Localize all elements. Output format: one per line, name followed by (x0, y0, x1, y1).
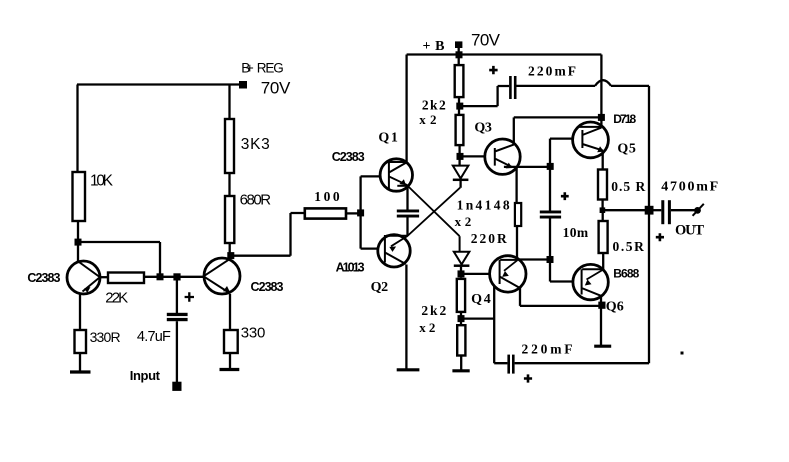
wire 2k2 to ground (460, 356, 462, 370)
wire 330R to ground (79, 353, 81, 371)
svg-text:680R: 680R (240, 192, 272, 209)
wire Q-right emitter to 330 (229, 294, 231, 330)
resistor 220R (515, 203, 521, 226)
wire Q-left emitter to 330R (79, 294, 81, 331)
wire Q3 collector to Q5 node (514, 116, 602, 118)
node dot lower 10m junction (547, 256, 554, 263)
svg-text:C2383: C2383 (27, 271, 60, 285)
transistor Q-right C2383 (204, 258, 240, 294)
svg-text:100: 100 (314, 189, 340, 204)
ground under 330R (70, 370, 91, 373)
wire base rail vertical Q1-Q2 (361, 176, 381, 248)
ground under 330 (220, 368, 240, 371)
transistor Q4 (490, 256, 526, 292)
wire 22K to Q-right base (144, 276, 204, 278)
capacitor between Q1 and Q2 (406, 186, 408, 236)
resistor 330 (224, 330, 238, 353)
plus sign top 220mF (489, 66, 497, 74)
capacitor 10m (540, 211, 561, 214)
resistor 2k2 lower-a (457, 279, 465, 312)
svg-text:220mF: 220mF (528, 64, 576, 79)
node junction above left transistor (75, 239, 82, 246)
node OUT big square (645, 206, 654, 215)
node dot on Q6 emitter wire (598, 302, 605, 309)
svg-text:x2: x2 (455, 214, 472, 229)
wire diag corner to diode2 (459, 236, 461, 252)
wire 220mF top left leg (460, 86, 509, 106)
svg-text:220mF: 220mF (522, 342, 573, 357)
node dot Q3 emitter junction (547, 163, 554, 170)
svg-text:10K: 10K (90, 173, 114, 190)
transistor Q3 (485, 139, 520, 174)
wire rail to 3K3 (228, 85, 230, 120)
wire between lower 2k2 pair (460, 312, 462, 325)
capacitor 4700mF (661, 200, 664, 224)
node dot x160 on base wire (157, 273, 164, 280)
node dot x177 on base wire (173, 273, 180, 280)
svg-text:10m: 10m (563, 225, 589, 240)
svg-text:x2: x2 (419, 112, 436, 127)
wire collector loop to 100 resistor (231, 213, 305, 256)
svg-text:Q2: Q2 (371, 280, 389, 295)
svg-text:A1013: A1013 (336, 261, 365, 275)
wire Q4 emitter to Q6 emitter (520, 288, 602, 306)
svg-text:B+: B+ (241, 61, 254, 76)
output probe terminal (693, 204, 704, 216)
wire OUT node to lower 0.5R (602, 210, 604, 221)
wire 0.5R lower to Q6 collector (602, 253, 604, 269)
wire 100 to base rail (346, 212, 361, 214)
svg-text:1n4148: 1n4148 (457, 198, 510, 213)
wire 3K3 to 680R (228, 173, 230, 196)
node dot small at 0.5R junction (600, 207, 606, 213)
svg-text:4.7uF: 4.7uF (137, 329, 171, 345)
resistor 10K (73, 172, 86, 221)
wire 220R to Q4 collector (517, 226, 550, 260)
svg-text:Q5: Q5 (617, 141, 636, 156)
svg-text:4700mF: 4700mF (661, 180, 718, 195)
wire input node down to capacitor 4.7uF (176, 277, 178, 313)
wire feedback horizontal y242 (78, 241, 160, 243)
node dot at base rail (357, 209, 364, 216)
node dot on +B rail (456, 51, 463, 58)
wire Q6 emitter to ground (600, 296, 602, 346)
svg-text:+B: +B (423, 39, 445, 54)
transistor Q2 A1013 (378, 235, 410, 267)
node dot Q4 base junction (458, 270, 465, 277)
wire Q1 collector vertical (405, 55, 407, 162)
capacitor C-4.7uF plates (167, 313, 188, 316)
svg-text:220R: 220R (471, 231, 507, 246)
wire between 2k2 pair (458, 97, 460, 115)
ground under Q2 (397, 368, 420, 371)
node B+ REG terminal square (239, 81, 247, 89)
wire 4.7uF to input terminal (176, 321, 178, 382)
svg-text:C2383: C2383 (251, 280, 284, 294)
svg-text:70V: 70V (261, 79, 291, 98)
wire 220mF top right leg with hop (517, 80, 650, 86)
wire node to Q4 emitter loop and bottom cap (461, 286, 507, 364)
resistor 2k2 upper-b (456, 115, 464, 145)
transistor Q1 C2383 (380, 159, 412, 191)
wire Q2 collector to ground (405, 265, 407, 369)
wire 2k2 to diode1 (458, 145, 460, 166)
svg-text:Q6: Q6 (606, 299, 624, 314)
wire 0.5R to OUT node (601, 200, 603, 211)
wire Q3 collector vertical (513, 117, 515, 144)
capacitor 220mF bottom (507, 355, 510, 374)
resistor 680R (225, 196, 234, 243)
stray dot (681, 352, 684, 355)
wire 4700mF to output probe (671, 209, 695, 211)
ground under Q6 (594, 345, 611, 348)
plus sign 10m (561, 192, 569, 200)
svg-text:330: 330 (241, 325, 266, 342)
svg-text:330R: 330R (90, 329, 121, 345)
svg-text:3K3: 3K3 (241, 136, 270, 153)
diode D1 1n4148 (453, 166, 469, 188)
transistor Q6 B688 (573, 264, 608, 299)
svg-text:D718: D718 (613, 112, 636, 126)
svg-text:C2383: C2383 (332, 150, 365, 164)
transistor Q-left C2383 (67, 261, 100, 294)
svg-text:0.5 R: 0.5 R (611, 179, 645, 194)
diode D2 1n4148 (454, 252, 470, 271)
node dot between lower 2k2 pair (458, 315, 465, 322)
node +B terminal square (455, 41, 462, 48)
wire 10K bottom to Q-left collector (77, 221, 79, 262)
wire diagonal Q1 emitter to lower diode (389, 177, 460, 237)
ground under lower 2k2 (452, 369, 469, 372)
wire junction down to 10m cap (549, 167, 551, 211)
transistor Q5 D718 (573, 122, 609, 158)
resistor 2k2 upper-a (455, 65, 464, 97)
wire Q3 base (460, 155, 485, 157)
svg-text:REG: REG (257, 61, 284, 76)
node dot Q5 collector junction (598, 114, 605, 121)
resistor 330R (75, 330, 87, 353)
resistor 0.5R upper (598, 170, 607, 200)
node dot between 2k2 pair (456, 103, 463, 110)
wire Q5 collector vertical from +B rail (600, 55, 602, 128)
wire left vertical from rail to 10K (76, 85, 78, 173)
svg-text:Q1: Q1 (378, 130, 398, 145)
plus sign OUT (656, 233, 664, 241)
wire +B rail horizontal (407, 53, 602, 55)
wire junction down to Q6 base (550, 260, 573, 282)
wire feedback down at x160 (159, 242, 161, 277)
svg-text:Q3: Q3 (474, 120, 492, 135)
node Input terminal square (172, 382, 181, 391)
svg-text:2k2: 2k2 (421, 303, 446, 318)
wire Q5 base (550, 139, 573, 167)
wire +B square stub (458, 48, 460, 65)
wire OUT horizontal (603, 209, 646, 211)
plus sign of 4.7uF (185, 292, 194, 301)
wire emitter to 220R (515, 167, 517, 203)
svg-text:0.5R: 0.5R (613, 239, 645, 254)
wire Q5 emitter to 0.5R (602, 151, 604, 170)
wire Q3 emitter horizontal (504, 166, 550, 168)
resistor 0.5R lower (599, 221, 608, 253)
wire OUT node to 4700mF (654, 209, 662, 211)
resistor 3K3 (225, 119, 234, 173)
wire diode2 to 2k2 lower-a (460, 277, 462, 279)
svg-text:70V: 70V (471, 31, 501, 50)
svg-text:OUT: OUT (675, 223, 704, 239)
wire right rail vertical (648, 86, 650, 363)
capacitor 220mF top (509, 76, 512, 99)
wire 10m cap to lower junction (549, 219, 551, 260)
svg-text:Input: Input (130, 368, 161, 383)
wire diagonal Q2 emitter to upper diode (391, 188, 460, 247)
wire Q4 base (461, 273, 490, 275)
svg-text:x2: x2 (419, 320, 435, 335)
resistor 100 (305, 208, 346, 218)
svg-text:B688: B688 (613, 267, 639, 281)
wire B+ top rail (77, 83, 239, 85)
wire 680R to Q-right collector (229, 243, 231, 260)
node dot Q3 base junction (457, 153, 464, 160)
node collector junction dot (227, 252, 234, 259)
svg-text:Q4: Q4 (471, 292, 491, 307)
plus sign bottom 220mF (524, 374, 532, 382)
resistor 22K (108, 273, 144, 284)
wire base of Q-left to 22K (100, 276, 109, 278)
svg-text:22K: 22K (105, 290, 128, 307)
svg-text:2k2: 2k2 (422, 98, 446, 113)
wire bottom cap to right rail (515, 362, 649, 364)
resistor 2k2 lower-b (457, 325, 465, 355)
wire 330 to ground (229, 353, 231, 369)
